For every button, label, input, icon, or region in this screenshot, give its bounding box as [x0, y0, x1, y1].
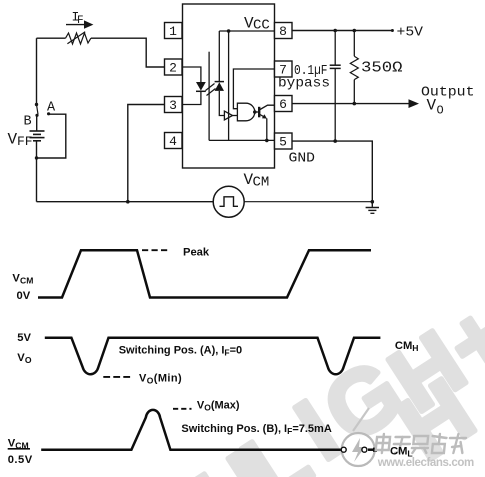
label VCM under IC [244, 171, 270, 191]
node: VCC internal junction [227, 29, 231, 33]
watermark logo circle [342, 408, 375, 466]
watermark CJK pseudo glyphs [375, 434, 466, 453]
waveform 3 max dashed line [173, 408, 192, 410]
wire: LED cathode to pin 3 internal [183, 91, 201, 104]
wire: pin 6 output [292, 103, 409, 105]
pin 6 box [275, 96, 293, 113]
node: battery/A-loop junction [35, 156, 38, 159]
svg-text:5: 5 [279, 135, 287, 150]
capacitor C1 0.1uF [330, 31, 341, 142]
pin 7 box [275, 61, 293, 78]
pin 5 box [275, 133, 293, 150]
internal ground rail [209, 139, 274, 141]
transistor Q1 [259, 105, 274, 118]
node: resistor top junction [353, 29, 357, 33]
resistor R1 slash [67, 32, 85, 44]
svg-text:V: V [427, 97, 437, 115]
light coupling slashes [206, 84, 216, 96]
output arrow [409, 99, 420, 108]
svg-text:VO(Min): VO(Min) [139, 373, 182, 386]
wire: left vertical from top wire to switch [36, 38, 38, 104]
svg-text:bypass: bypass [278, 76, 330, 92]
svg-text:V: V [8, 131, 18, 149]
shield line [208, 52, 210, 141]
svg-text:Switching Pos. (B), IF=7.5mA: Switching Pos. (B), IF=7.5mA [181, 423, 331, 436]
amplifier buffer triangle [224, 111, 232, 120]
wire: bottom rail left of VCM source [37, 201, 214, 203]
node: emitter/rail junction [265, 139, 269, 143]
svg-text:350Ω: 350Ω [361, 61, 403, 77]
wire: switch A loop to battery bottom [37, 114, 66, 158]
wire: pin 8 to +5V [292, 30, 392, 32]
svg-text:0.5V: 0.5V [8, 454, 33, 466]
node: rail to pin3 branch [126, 200, 130, 204]
label VCC [244, 15, 270, 34]
svg-text:CM: CM [20, 276, 33, 286]
op-amp U1 package outline (IC box) [183, 4, 275, 168]
photodiode D2 [215, 82, 224, 91]
waveform 2 min dashed line [103, 376, 132, 378]
svg-text:O: O [437, 104, 444, 118]
svg-text:GND: GND [289, 151, 316, 167]
svg-text:www.elecfans.com: www.elecfans.com [377, 457, 475, 469]
wire: switch B to battery top [36, 115, 38, 131]
resistor R1 (IF limiting, zigzag) [66, 33, 91, 44]
label Vo [427, 97, 444, 118]
svg-text:CM: CM [253, 175, 270, 191]
wire: buffer output to gate [233, 115, 238, 117]
svg-text:O: O [25, 355, 32, 365]
wire: pin 3 branch [128, 105, 165, 202]
ground [366, 202, 379, 214]
svg-text:8: 8 [279, 24, 287, 39]
waveform 3 VCM pulse [41, 410, 341, 450]
label Vo waveform2 [17, 352, 32, 365]
wire: VCC internal line [219, 30, 274, 32]
pin 8 box [275, 23, 293, 40]
svg-text:FF: FF [17, 134, 33, 149]
pin 1 box [165, 23, 183, 40]
wire: bottom rail right of VCM source [244, 201, 372, 203]
pulse generator VCM [213, 186, 244, 217]
svg-text:2: 2 [169, 61, 177, 76]
svg-text:3: 3 [169, 98, 177, 113]
svg-text:B: B [24, 115, 32, 130]
resistor R2 350 ohm [350, 31, 358, 104]
svg-text:Switching Pos. (A), IF=0: Switching Pos. (A), IF=0 [119, 345, 242, 358]
node: +5V terminal dot [391, 29, 394, 32]
svg-text:5V: 5V [17, 332, 31, 344]
node: resistor bottom on output wire [353, 102, 357, 106]
wire: emitter down to internal rail [266, 118, 268, 140]
label VCM waveform3 underlined [8, 437, 30, 450]
label VFF [8, 131, 33, 150]
switch S1 pole contact [35, 103, 38, 106]
LED D1 (emitter diode) [196, 82, 206, 91]
svg-text:A: A [47, 101, 56, 116]
node: rail/ground/pin5 junction [371, 200, 375, 204]
wire: gate output to transistor base [255, 111, 259, 113]
battery VFF plates [30, 131, 45, 141]
pin 2 box [165, 59, 183, 76]
svg-text:+5V: +5V [397, 25, 424, 41]
IF current arrow [66, 20, 93, 28]
svg-text:4: 4 [169, 134, 177, 149]
switch S1 lever [37, 105, 39, 115]
label IF [72, 10, 84, 28]
pin 4 box [165, 133, 183, 150]
node: gate output [253, 110, 257, 114]
wire: pin 5 to ground rail [292, 141, 372, 202]
svg-text:0V: 0V [17, 290, 31, 302]
svg-text:1: 1 [169, 24, 177, 39]
waveform 1 peak dashed line [142, 249, 169, 251]
wire: resistor to pin 2 [91, 38, 165, 67]
wire: pin 2 internal to LED anode [183, 67, 201, 82]
svg-text:CML: CML [390, 446, 413, 459]
wire: VCC down to internal rail [228, 31, 230, 140]
switch contact B dot [35, 114, 38, 117]
wire: IF top wire left segment [37, 37, 66, 39]
pin 3 box [165, 97, 183, 114]
gate U2 (detector AND shape) [237, 103, 254, 121]
label VCM waveform1 [12, 273, 33, 286]
waveform 1 VCM trapezoid [38, 250, 371, 297]
wire: photodiode to amplifier input [219, 91, 224, 116]
svg-text:Peak: Peak [183, 247, 210, 259]
svg-text:VO(Max): VO(Max) [197, 400, 240, 413]
waveform 2 Vo with dips [45, 338, 381, 375]
node: cap top junction [333, 29, 337, 33]
wire: battery bottom to rail [36, 141, 38, 202]
svg-text:6: 6 [279, 97, 287, 112]
watermark big diagonal letters [179, 284, 485, 477]
wire: pin 7 internal to gate input [233, 69, 274, 109]
node: cap bottom on pin5 wire [333, 139, 337, 143]
switch contact A dot [47, 112, 50, 115]
waveform 3 break circles [341, 447, 377, 452]
wire: VCC down to photodiode [218, 31, 220, 82]
